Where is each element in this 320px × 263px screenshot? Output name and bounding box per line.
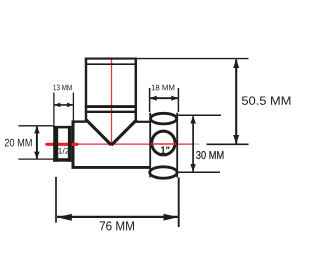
component right port: bottom ellipse <box>150 167 177 178</box>
wire body left edge <box>72 120 75 168</box>
component right port: top ellipse <box>151 113 177 124</box>
node centerline-horizontal (red) <box>45 143 200 145</box>
component left port: left border <box>53 126 58 162</box>
dimension 50.5 MM: bottom reference line <box>207 143 249 145</box>
dimension 50.5 MM: bottom arrowhead <box>233 135 239 144</box>
dimension 50.5 MM: top reference line <box>137 58 248 60</box>
label 1/2" <box>58 148 72 154</box>
wire V-seat right stroke <box>111 120 136 146</box>
label 30 MM <box>196 151 223 159</box>
node red centerline through circle <box>151 143 176 145</box>
label 20 MM <box>5 139 32 147</box>
wire body bottom edge <box>72 166 151 169</box>
component right port: right side <box>176 113 178 178</box>
dimension 13 MM: left arrowhead <box>54 103 60 108</box>
component right port 1 inch: left side <box>149 113 151 178</box>
wire bonnet flange line upper <box>85 105 137 108</box>
dimension 18 MM: left arrowhead <box>150 96 157 101</box>
label 1" <box>161 146 169 153</box>
label 50.5 MM <box>242 96 290 104</box>
dimension 13 MM: right arrowhead <box>67 103 73 108</box>
component left port: top border <box>53 126 71 128</box>
dimension 50.5 MM: top arrowhead <box>233 59 239 68</box>
dimension 20 MM: bottom extension line <box>18 158 53 160</box>
dimension 20 MM: top arrowhead <box>34 126 40 133</box>
node centerline-vertical (red) <box>111 58 113 144</box>
label 76 MM <box>100 221 134 230</box>
dimension 76 MM: right extension line <box>178 178 180 228</box>
dimension 76 MM: arrow line <box>57 216 178 218</box>
dimension 18 MM: right extension line <box>177 88 179 112</box>
dimension 13 MM: left extension line <box>53 93 55 127</box>
dimension 13 MM: arrow line <box>55 104 73 106</box>
dimension 30 MM: bottom arrowhead <box>190 164 196 172</box>
wire bonnet cap underline <box>86 63 136 65</box>
dimension 76 MM: right arrowhead <box>164 214 179 221</box>
dimension 18 MM: right arrowhead <box>171 96 178 101</box>
dimension 50.5 MM: arrow line <box>235 60 237 144</box>
dimension 30 MM: bottom extension line <box>177 171 220 173</box>
wire bonnet top cap edge <box>85 58 137 60</box>
dimension 76 MM: left arrowhead <box>57 214 72 221</box>
dimension 30 MM: arrow line <box>192 116 194 171</box>
dimension 76 MM: left extension line <box>55 177 57 223</box>
dimension 20 MM: arrow line <box>36 127 38 159</box>
dimension 18 MM: arrow line <box>150 97 178 99</box>
wire bonnet right side <box>135 58 138 122</box>
dimension 30 MM: top arrowhead <box>190 116 196 124</box>
dimension 30 MM: top extension line <box>177 114 222 116</box>
wire body top edge left <box>72 120 87 122</box>
node red centerline highlight over port <box>47 143 77 146</box>
label 18 MM <box>152 85 175 91</box>
dimension 20 MM: top extension line <box>18 125 53 127</box>
wire V-seat left stroke <box>86 120 111 146</box>
label 13 MM <box>53 85 71 91</box>
dimension 20 MM: bottom arrowhead <box>34 152 40 159</box>
wire bonnet flange line lower <box>85 111 137 113</box>
component left port 1/2 inch (white fill) <box>53 126 71 162</box>
component right port: middle circle <box>152 131 175 155</box>
wire body top edge right <box>136 121 151 123</box>
dimension 18 MM: left extension line <box>149 88 151 112</box>
dimension 13 MM: right extension line <box>72 93 74 121</box>
component left port: right border <box>68 126 72 162</box>
wire bonnet left side <box>85 58 87 122</box>
component left port: bottom border <box>53 158 71 162</box>
